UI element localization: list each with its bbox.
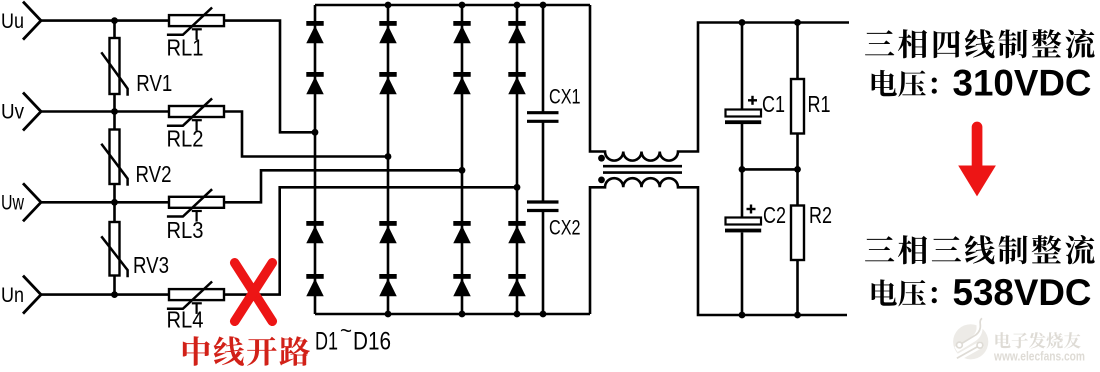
svg-text:RV1: RV1	[136, 70, 172, 96]
svg-text:Un: Un	[1, 284, 24, 307]
svg-text:R1: R1	[808, 91, 831, 117]
svg-text:RL2: RL2	[167, 126, 204, 152]
svg-text:Uv: Uv	[1, 101, 24, 124]
svg-text:RL3: RL3	[167, 217, 204, 243]
svg-text:Uu: Uu	[1, 10, 24, 33]
svg-text:538VDC: 538VDC	[953, 272, 1092, 313]
svg-text:D16: D16	[353, 328, 391, 356]
svg-text:CX1: CX1	[549, 86, 581, 109]
svg-text:RL4: RL4	[167, 307, 204, 333]
svg-text:CX2: CX2	[549, 217, 581, 240]
svg-text:RL1: RL1	[167, 35, 204, 61]
svg-text:Uw: Uw	[1, 192, 25, 215]
svg-text:www.elecfans.com: www.elecfans.com	[993, 349, 1085, 364]
svg-text:~: ~	[340, 318, 352, 343]
svg-text:RV3: RV3	[133, 252, 169, 278]
svg-text:R2: R2	[809, 202, 832, 228]
svg-text:RV2: RV2	[136, 161, 172, 187]
svg-text:310VDC: 310VDC	[953, 63, 1092, 104]
svg-text:C1: C1	[762, 91, 785, 117]
svg-text:D1: D1	[315, 328, 338, 356]
svg-text:C2: C2	[763, 202, 786, 228]
